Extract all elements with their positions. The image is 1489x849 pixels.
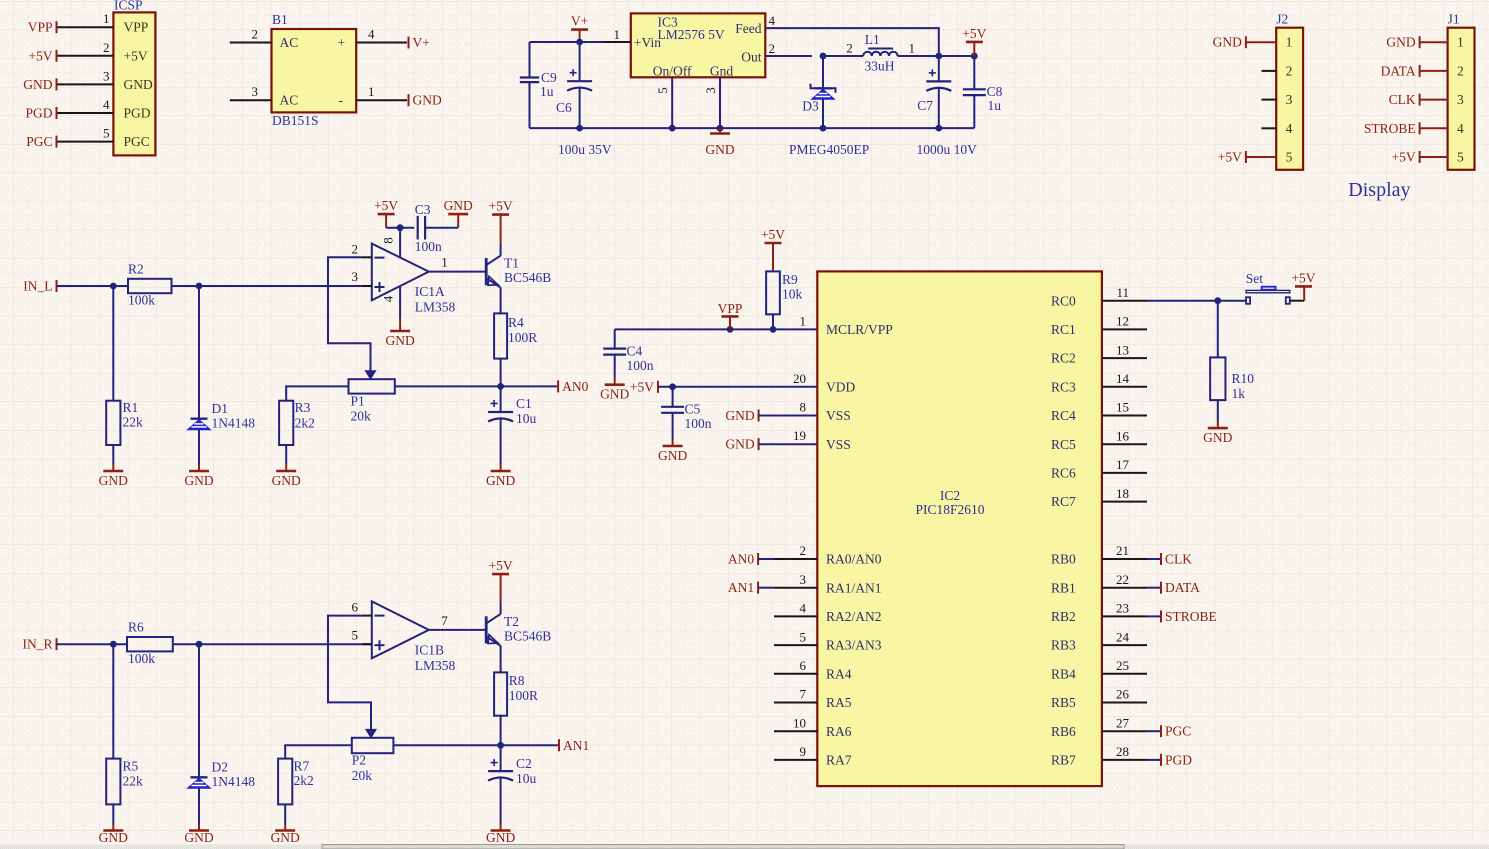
capacitor C8 1u xyxy=(963,56,1003,128)
svg-text:3: 3 xyxy=(800,572,807,587)
svg-text:ICSP: ICSP xyxy=(114,0,143,13)
svg-text:PGD: PGD xyxy=(124,106,151,121)
svg-text:GND: GND xyxy=(23,77,52,92)
svg-text:25: 25 xyxy=(1116,658,1129,673)
svg-text:1u: 1u xyxy=(988,98,1002,113)
svg-text:RA2/AN2: RA2/AN2 xyxy=(826,609,882,624)
horizontal scrollbar xyxy=(0,845,1489,849)
svg-text:AN1: AN1 xyxy=(728,580,754,595)
svg-text:AN0: AN0 xyxy=(562,379,588,394)
IC2 left pin 7 stub xyxy=(774,687,817,703)
svg-text:RC0: RC0 xyxy=(1051,293,1076,308)
net label VPP xyxy=(28,20,57,35)
net label AN0 at RA pin xyxy=(728,552,774,567)
net label GND at J1 xyxy=(1386,35,1419,50)
supply +5V at Set switch xyxy=(1291,270,1315,300)
svg-text:BC546B: BC546B xyxy=(504,270,551,285)
net label PGD xyxy=(25,106,56,121)
ground under C5 xyxy=(658,439,687,463)
svg-text:6: 6 xyxy=(352,600,359,615)
ground at C3 (up) xyxy=(444,198,473,228)
op-amp IC1A LM358 xyxy=(372,244,456,315)
svg-text:GND: GND xyxy=(184,830,213,845)
svg-text:5: 5 xyxy=(655,87,670,94)
svg-text:+Vin: +Vin xyxy=(634,35,661,50)
wire P1 right to AN0 node xyxy=(395,385,501,387)
IC2 right pin 17 stub xyxy=(1102,457,1147,473)
IC3 pin 1 stub xyxy=(604,27,631,42)
svg-text:18: 18 xyxy=(1116,486,1129,501)
IC2 left pin 2 stub xyxy=(774,543,817,559)
inductor L1 33uH xyxy=(846,32,915,73)
svg-text:20: 20 xyxy=(793,371,806,386)
ground under R3 xyxy=(272,464,301,488)
svg-text:5: 5 xyxy=(103,126,110,141)
svg-text:PGC: PGC xyxy=(26,134,52,149)
svg-text:R3: R3 xyxy=(295,400,311,415)
net label STROBE at RB pin xyxy=(1147,609,1217,624)
svg-text:GND: GND xyxy=(1203,430,1232,445)
wire B1 pin 4 (+) to net V+ xyxy=(356,27,407,43)
svg-text:1000u 10V: 1000u 10V xyxy=(917,142,978,157)
svg-text:Set: Set xyxy=(1246,271,1264,286)
net label GND at B1 xyxy=(409,93,442,108)
svg-text:R2: R2 xyxy=(128,262,144,277)
svg-text:IN_R: IN_R xyxy=(23,637,53,652)
junction IN_L / R1 xyxy=(110,283,117,290)
wire switch to +5V xyxy=(1290,300,1304,302)
wire IN_L net xyxy=(57,285,372,287)
svg-text:2: 2 xyxy=(769,41,776,56)
resistor R1 22k xyxy=(106,286,143,464)
svg-text:RA3/AN3: RA3/AN3 xyxy=(826,638,882,653)
svg-text:AC: AC xyxy=(280,93,299,108)
svg-text:10u: 10u xyxy=(516,771,537,786)
wire B1 pin 1 (-) to GND xyxy=(356,84,407,100)
svg-text:GND: GND xyxy=(1386,35,1415,50)
svg-text:100k: 100k xyxy=(128,651,155,666)
svg-text:11: 11 xyxy=(1116,285,1129,300)
svg-text:+5V: +5V xyxy=(630,379,654,394)
svg-text:+5V: +5V xyxy=(761,227,785,242)
svg-text:16: 16 xyxy=(1116,428,1130,443)
svg-text:GND: GND xyxy=(271,830,300,845)
IC1A pin 2 stub xyxy=(352,242,372,258)
svg-text:12: 12 xyxy=(1116,314,1129,329)
wire R10 to ground xyxy=(1217,400,1219,421)
ground under R5 xyxy=(99,824,128,845)
svg-text:23: 23 xyxy=(1116,601,1129,616)
svg-text:100n: 100n xyxy=(685,416,712,431)
svg-text:10: 10 xyxy=(793,715,806,730)
svg-text:RA1/AN1: RA1/AN1 xyxy=(826,580,882,595)
junction Out / D3 xyxy=(820,53,827,60)
IC3 pin 3 Gnd wire to ground rail xyxy=(703,77,720,128)
svg-text:1: 1 xyxy=(614,27,621,42)
wire B1 pin 2 (AC) xyxy=(230,27,272,43)
svg-text:PGC: PGC xyxy=(124,134,150,149)
svg-text:4: 4 xyxy=(1286,121,1293,136)
net label AN1 xyxy=(559,738,589,753)
wire V+ rail to IC3 +Vin xyxy=(530,41,631,43)
ground under R7 xyxy=(271,824,300,845)
svg-text:33uH: 33uH xyxy=(865,59,895,74)
microcontroller IC2 PIC18F2610 xyxy=(817,271,1102,786)
svg-text:RA0/AN0: RA0/AN0 xyxy=(826,552,882,567)
svg-text:LM2576 5V: LM2576 5V xyxy=(658,27,725,42)
IC2 right pin 11 stub xyxy=(1102,285,1147,301)
svg-text:13: 13 xyxy=(1116,342,1129,357)
IC2 right pin 24 stub xyxy=(1102,629,1147,645)
svg-text:PGD: PGD xyxy=(25,106,52,121)
ground rail of supply xyxy=(530,127,975,129)
connector J2 xyxy=(1276,11,1303,170)
transistor T2 BC546B xyxy=(486,614,551,646)
svg-text:On/Off: On/Off xyxy=(653,64,692,79)
junction Feed / C7 xyxy=(935,53,942,60)
svg-text:3: 3 xyxy=(1286,92,1293,107)
svg-text:100R: 100R xyxy=(509,688,538,703)
svg-text:J2: J2 xyxy=(1276,11,1288,26)
svg-text:GND: GND xyxy=(99,830,128,845)
junction R9 / MCLR xyxy=(770,326,777,333)
svg-text:LM358: LM358 xyxy=(415,658,456,673)
IC2 right pin 13 stub xyxy=(1102,342,1147,358)
ground symbol GND below IC3 xyxy=(705,128,734,157)
net label CLK at RB pin xyxy=(1147,552,1192,567)
svg-text:GND: GND xyxy=(486,830,515,845)
net label GND at J2 xyxy=(1213,35,1246,50)
IC2 left pin 4 stub xyxy=(774,601,817,617)
ground under C1 xyxy=(486,464,515,488)
svg-text:1: 1 xyxy=(800,313,807,328)
wire net VPP to ICSP pin 1 xyxy=(58,11,114,27)
svg-text:R5: R5 xyxy=(123,759,139,774)
supply symbol V+ xyxy=(571,14,588,42)
net label AN1 at RA pin xyxy=(728,580,774,595)
junction On/Off / rail xyxy=(669,125,676,132)
svg-text:24: 24 xyxy=(1116,629,1130,644)
IC2 right pin 15 stub xyxy=(1102,400,1147,416)
IC1B pin 6 stub xyxy=(352,600,372,616)
svg-text:RC4: RC4 xyxy=(1051,408,1076,423)
wire P2 right to AN1 node xyxy=(393,744,500,746)
wire net STROBE to J1 xyxy=(1420,127,1448,129)
wire T1 collector xyxy=(500,244,502,256)
svg-text:1: 1 xyxy=(103,11,110,26)
svg-text:2k2: 2k2 xyxy=(294,773,314,788)
svg-text:1N4148: 1N4148 xyxy=(212,416,256,431)
svg-text:RC6: RC6 xyxy=(1051,466,1076,481)
junction D3 / rail xyxy=(820,125,827,132)
junction C5 / VDD xyxy=(669,383,676,390)
resistor R3 2k2 xyxy=(279,400,315,464)
junction IN_L / D1 xyxy=(196,283,203,290)
svg-text:DATA: DATA xyxy=(1165,580,1200,595)
svg-text:V+: V+ xyxy=(413,35,430,50)
svg-text:4: 4 xyxy=(1457,121,1464,136)
svg-text:5: 5 xyxy=(1457,150,1464,165)
IC2 right pin 12 stub xyxy=(1102,314,1147,330)
IC1A output pin 1 wire to T1 base xyxy=(429,255,486,272)
net label DATA at RB pin xyxy=(1147,580,1200,595)
svg-text:GND: GND xyxy=(1213,35,1242,50)
wire net +5V to ICSP pin 2 xyxy=(58,40,114,56)
svg-text:VSS: VSS xyxy=(826,408,851,423)
svg-text:CLK: CLK xyxy=(1165,552,1192,567)
svg-text:1: 1 xyxy=(909,41,916,56)
svg-text:Display: Display xyxy=(1348,179,1410,201)
junction C6 / rail xyxy=(576,125,583,132)
IC2 right pin 25 stub xyxy=(1102,658,1147,674)
supply +5V at R9 xyxy=(761,227,785,271)
svg-text:C1: C1 xyxy=(516,396,532,411)
pushbutton Set xyxy=(1246,271,1290,304)
wire R3 to P1 left terminal xyxy=(286,386,348,400)
wire net CLK to J1 xyxy=(1420,99,1448,101)
svg-text:C7: C7 xyxy=(917,98,933,113)
ground under R1 xyxy=(99,464,128,488)
capacitor C4 100n xyxy=(603,329,654,377)
supply symbol +5V at regulator output xyxy=(962,26,986,56)
svg-text:4: 4 xyxy=(381,295,396,302)
svg-text:6: 6 xyxy=(800,658,807,673)
svg-text:10k: 10k xyxy=(782,287,803,302)
svg-text:GND: GND xyxy=(725,408,754,423)
svg-text:+: + xyxy=(338,35,346,50)
svg-text:100u 35V: 100u 35V xyxy=(558,142,612,157)
capacitor C2 10u electrolytic xyxy=(488,745,536,823)
IC3 pin 4 Feed wire xyxy=(765,13,939,56)
regulator IC3 LM2576 5V xyxy=(631,13,766,78)
svg-text:+5V: +5V xyxy=(124,48,148,63)
wire VDD net xyxy=(658,386,817,388)
svg-text:P1: P1 xyxy=(351,394,365,409)
svg-text:R7: R7 xyxy=(294,759,310,774)
svg-text:C9: C9 xyxy=(541,70,557,85)
svg-text:5: 5 xyxy=(352,628,359,643)
svg-text:R1: R1 xyxy=(123,400,139,415)
svg-text:RC3: RC3 xyxy=(1051,379,1076,394)
IC1B pin 5 stub xyxy=(352,628,372,645)
IC2 left pin 9 stub xyxy=(774,744,817,760)
resistor R6 100k xyxy=(127,620,173,666)
svg-text:1: 1 xyxy=(1286,35,1293,50)
wire R8 to AN1 node xyxy=(500,716,502,746)
svg-text:V+: V+ xyxy=(571,14,588,29)
potentiometer P2 20k xyxy=(352,729,394,783)
IC2 left pin 10 stub xyxy=(774,715,817,731)
svg-text:B1: B1 xyxy=(272,12,288,27)
svg-text:+5V: +5V xyxy=(374,198,398,213)
svg-text:7: 7 xyxy=(441,613,448,628)
wire net +5V to J2 xyxy=(1246,156,1276,158)
stub J2 pin xyxy=(1262,99,1277,101)
junction IN_R / R5 xyxy=(110,641,117,648)
IC3 pin 5 On/Off wire to ground rail xyxy=(655,77,672,128)
capacitor C9 1u xyxy=(520,42,557,128)
svg-text:Out: Out xyxy=(741,50,761,65)
net label DATA at J1 xyxy=(1381,63,1420,78)
wire net +5V to J1 xyxy=(1420,156,1448,158)
svg-text:14: 14 xyxy=(1116,371,1130,386)
net label AN0 xyxy=(558,379,588,394)
svg-text:RC5: RC5 xyxy=(1051,437,1076,452)
IC2 right pin 22 stub xyxy=(1102,572,1147,588)
IC2 left pin 5 stub xyxy=(774,629,817,645)
svg-text:IC1B: IC1B xyxy=(415,643,444,658)
svg-text:GND: GND xyxy=(124,77,153,92)
wire net GND to ICSP pin 3 xyxy=(58,68,114,84)
wire MCLR net xyxy=(615,328,818,330)
svg-text:Gnd: Gnd xyxy=(710,64,733,79)
svg-text:+5V: +5V xyxy=(1218,150,1242,165)
svg-text:R9: R9 xyxy=(782,272,798,287)
wire T2 collector xyxy=(500,602,502,614)
net label PGC xyxy=(26,134,56,149)
IC2 right pin 28 stub xyxy=(1102,744,1147,760)
capacitor C1 10u electrolytic xyxy=(488,386,536,464)
junction VPP / MCLR xyxy=(727,326,734,333)
svg-text:GND: GND xyxy=(705,142,734,157)
junction Gnd pin / rail xyxy=(717,125,724,132)
svg-text:J1: J1 xyxy=(1448,11,1460,26)
svg-text:VPP: VPP xyxy=(718,301,743,316)
svg-text:5: 5 xyxy=(1286,150,1293,165)
capacitor C5 100n xyxy=(661,387,712,439)
wire AN1 node to label xyxy=(501,744,558,746)
svg-text:VPP: VPP xyxy=(124,20,149,35)
op-amp IC1B LM358 xyxy=(372,601,456,673)
svg-text:VSS: VSS xyxy=(826,437,851,452)
resistor R2 100k xyxy=(128,262,172,308)
IC1B output pin 7 wire to T2 base xyxy=(429,613,486,630)
connector J1 xyxy=(1448,11,1475,170)
svg-text:1N4148: 1N4148 xyxy=(212,774,256,789)
supply +5V at IC1A pin 8 xyxy=(374,198,398,228)
junction IN_R / D2 xyxy=(196,641,203,648)
capacitor C3 100n xyxy=(415,202,442,254)
wire B1 pin 3 (AC) xyxy=(230,84,272,100)
IC3 pin 2 Out wire to D3 xyxy=(765,41,812,56)
svg-text:100k: 100k xyxy=(128,293,155,308)
svg-text:R4: R4 xyxy=(508,315,524,330)
IC2 left pin 3 stub xyxy=(774,572,817,588)
net label +5V at J2 xyxy=(1218,150,1246,165)
svg-text:8: 8 xyxy=(800,400,807,415)
junction AN1 node xyxy=(497,742,504,749)
svg-text:19: 19 xyxy=(793,428,806,443)
wire C3 to GND xyxy=(425,227,458,229)
svg-text:GND: GND xyxy=(413,93,442,108)
svg-text:2: 2 xyxy=(1457,63,1464,78)
svg-text:CLK: CLK xyxy=(1389,92,1416,107)
svg-text:4: 4 xyxy=(769,13,776,28)
junction AN0 node xyxy=(497,383,504,390)
svg-text:L1: L1 xyxy=(865,32,880,47)
net label CLK at J1 xyxy=(1389,92,1420,107)
svg-text:T2: T2 xyxy=(504,614,519,629)
svg-text:+5V: +5V xyxy=(962,26,986,41)
capacitor C7 1000u 10V electrolytic xyxy=(917,56,978,157)
junction RC0 / R10 xyxy=(1214,297,1221,304)
diode D1 1N4148 xyxy=(188,286,256,464)
IC2 left pin 6 stub xyxy=(774,658,817,674)
svg-text:15: 15 xyxy=(1116,400,1129,415)
svg-text:R6: R6 xyxy=(128,620,144,635)
svg-text:GND: GND xyxy=(385,333,414,348)
junction pin8 node xyxy=(397,224,404,231)
ground under D2 xyxy=(184,824,213,845)
resistor R9 10k xyxy=(766,271,802,314)
svg-text:100R: 100R xyxy=(508,330,537,345)
svg-text:C4: C4 xyxy=(627,344,643,359)
svg-text:RB1: RB1 xyxy=(1051,580,1076,595)
wire T2 emitter to R8 xyxy=(500,646,502,673)
svg-text:1k: 1k xyxy=(1232,386,1246,401)
wire R9 to MCLR net xyxy=(772,314,774,329)
resistor R5 22k xyxy=(106,644,143,823)
wire T1 emitter to R4 xyxy=(500,287,502,313)
svg-text:4: 4 xyxy=(368,27,375,42)
svg-text:RB2: RB2 xyxy=(1051,609,1076,624)
svg-text:DB151S: DB151S xyxy=(272,113,319,128)
IC2 right pin 18 stub xyxy=(1102,486,1147,502)
net label V+ xyxy=(409,35,430,50)
svg-text:GND: GND xyxy=(486,473,515,488)
svg-text:RA4: RA4 xyxy=(826,666,852,681)
svg-text:GND: GND xyxy=(658,448,687,463)
svg-text:IC2: IC2 xyxy=(940,488,960,503)
svg-text:2: 2 xyxy=(352,242,359,257)
wire RC0 to R10 xyxy=(1217,301,1219,358)
svg-text:+5V: +5V xyxy=(1291,270,1315,285)
svg-text:22: 22 xyxy=(1116,572,1129,587)
svg-text:C6: C6 xyxy=(556,100,572,115)
svg-text:RC1: RC1 xyxy=(1051,322,1076,337)
svg-text:GND: GND xyxy=(444,198,473,213)
svg-text:+5V: +5V xyxy=(489,558,513,573)
svg-text:BC546B: BC546B xyxy=(504,628,551,643)
wire +5V to C3 xyxy=(386,227,414,229)
svg-text:LM358: LM358 xyxy=(415,300,456,315)
svg-text:RB0: RB0 xyxy=(1051,552,1076,567)
IC2 right pin 27 stub xyxy=(1102,715,1147,731)
svg-text:MCLR/VPP: MCLR/VPP xyxy=(826,322,893,337)
wire L1 to +5V node xyxy=(898,55,975,57)
wire net DATA to J1 xyxy=(1420,70,1448,72)
svg-text:1: 1 xyxy=(441,255,448,270)
net label IN_L xyxy=(23,279,56,294)
svg-text:9: 9 xyxy=(800,744,807,759)
wire net GND to J1 xyxy=(1420,41,1448,43)
svg-text:4: 4 xyxy=(800,601,807,616)
net label +5V at VDD xyxy=(630,379,658,394)
svg-text:GND: GND xyxy=(184,473,213,488)
svg-text:RA7: RA7 xyxy=(826,753,852,768)
svg-text:100n: 100n xyxy=(627,358,654,373)
IC1A power pins 8 and 4 xyxy=(381,228,401,318)
svg-text:T1: T1 xyxy=(504,256,519,271)
svg-text:5: 5 xyxy=(800,629,807,644)
svg-text:RA5: RA5 xyxy=(826,695,852,710)
net label GND at VSS pin 8 xyxy=(725,408,758,423)
wire net GND to J2 xyxy=(1246,41,1276,43)
ground under D1 xyxy=(184,464,213,488)
resistor R4 100R xyxy=(494,313,537,358)
svg-text:IC1A: IC1A xyxy=(415,284,445,299)
supply +5V at T1 collector xyxy=(489,199,513,244)
